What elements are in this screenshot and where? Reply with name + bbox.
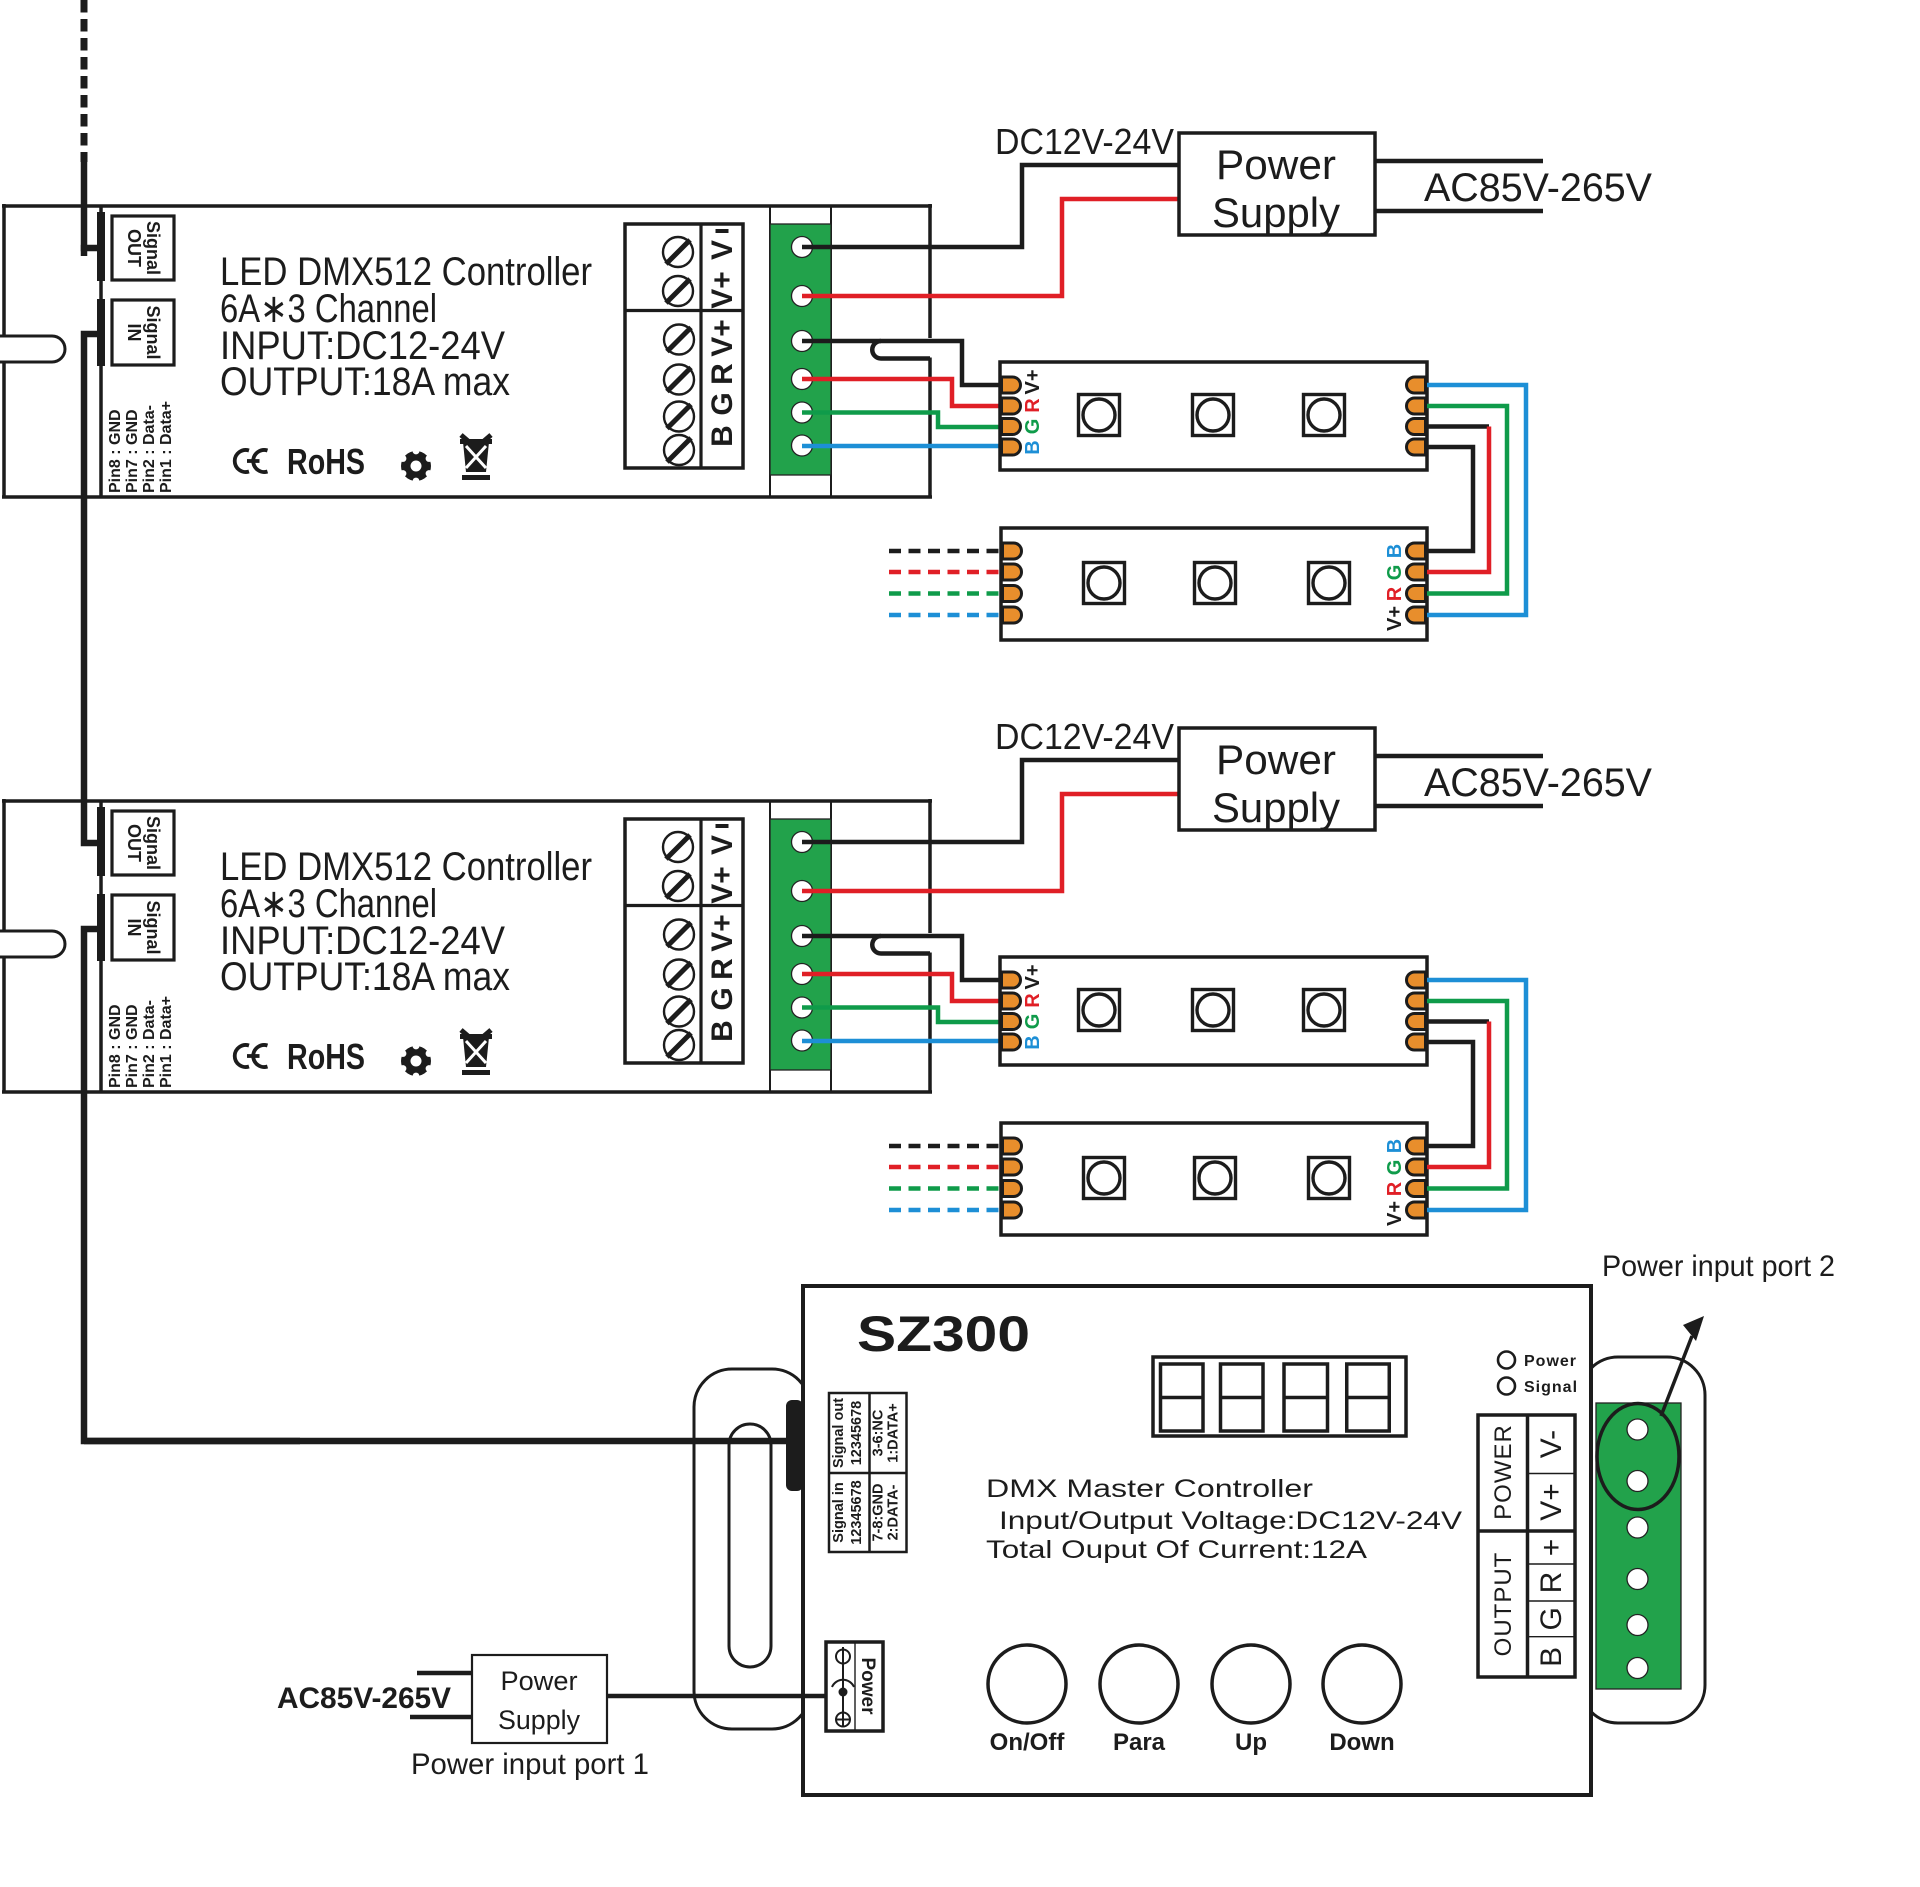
svg-text:Input/Output Voltage:DC12V-24V: Input/Output Voltage:DC12V-24V	[999, 1507, 1462, 1535]
svg-text:1:DATA+: 1:DATA+	[886, 1403, 902, 1462]
svg-text:Total Ouput Of Current:12A: Total Ouput Of Current:12A	[986, 1536, 1367, 1564]
svg-text:Power: Power	[857, 1657, 878, 1715]
svg-text:2:DATA-: 2:DATA-	[886, 1484, 902, 1540]
svg-text:Signal out: Signal out	[831, 1398, 847, 1468]
svg-text:V+: V+	[1535, 1483, 1568, 1521]
svg-text:Down: Down	[1329, 1729, 1394, 1756]
svg-text:OUTPUT: OUTPUT	[1490, 1552, 1517, 1657]
svg-text:3-6:NC: 3-6:NC	[871, 1409, 887, 1456]
svg-text:Signal in: Signal in	[831, 1482, 847, 1542]
svg-text:AC85V-265V: AC85V-265V	[277, 1682, 451, 1715]
svg-text:Supply: Supply	[498, 1705, 580, 1735]
svg-text:Power input port 1: Power input port 1	[411, 1748, 649, 1781]
svg-text:R: R	[1535, 1572, 1568, 1594]
svg-text:+: +	[1535, 1539, 1568, 1557]
svg-text:Power: Power	[1524, 1353, 1577, 1370]
svg-text:DMX Master Controller: DMX Master Controller	[986, 1475, 1313, 1503]
svg-text:7-8:GND: 7-8:GND	[871, 1483, 887, 1541]
svg-text:Signal: Signal	[1524, 1379, 1578, 1396]
svg-text:On/Off: On/Off	[990, 1729, 1066, 1756]
svg-text:Para: Para	[1113, 1729, 1166, 1756]
svg-text:SZ300: SZ300	[857, 1306, 1030, 1362]
svg-text:12345678: 12345678	[849, 1480, 865, 1545]
svg-text:Power input port 2: Power input port 2	[1602, 1250, 1835, 1283]
svg-text:POWER: POWER	[1490, 1424, 1517, 1520]
svg-text:G: G	[1535, 1607, 1568, 1630]
svg-text:B: B	[1535, 1647, 1568, 1667]
svg-text:V-: V-	[1535, 1430, 1568, 1458]
svg-text:12345678: 12345678	[849, 1401, 865, 1466]
svg-text:Up: Up	[1235, 1729, 1267, 1756]
svg-text:Power: Power	[501, 1666, 578, 1696]
